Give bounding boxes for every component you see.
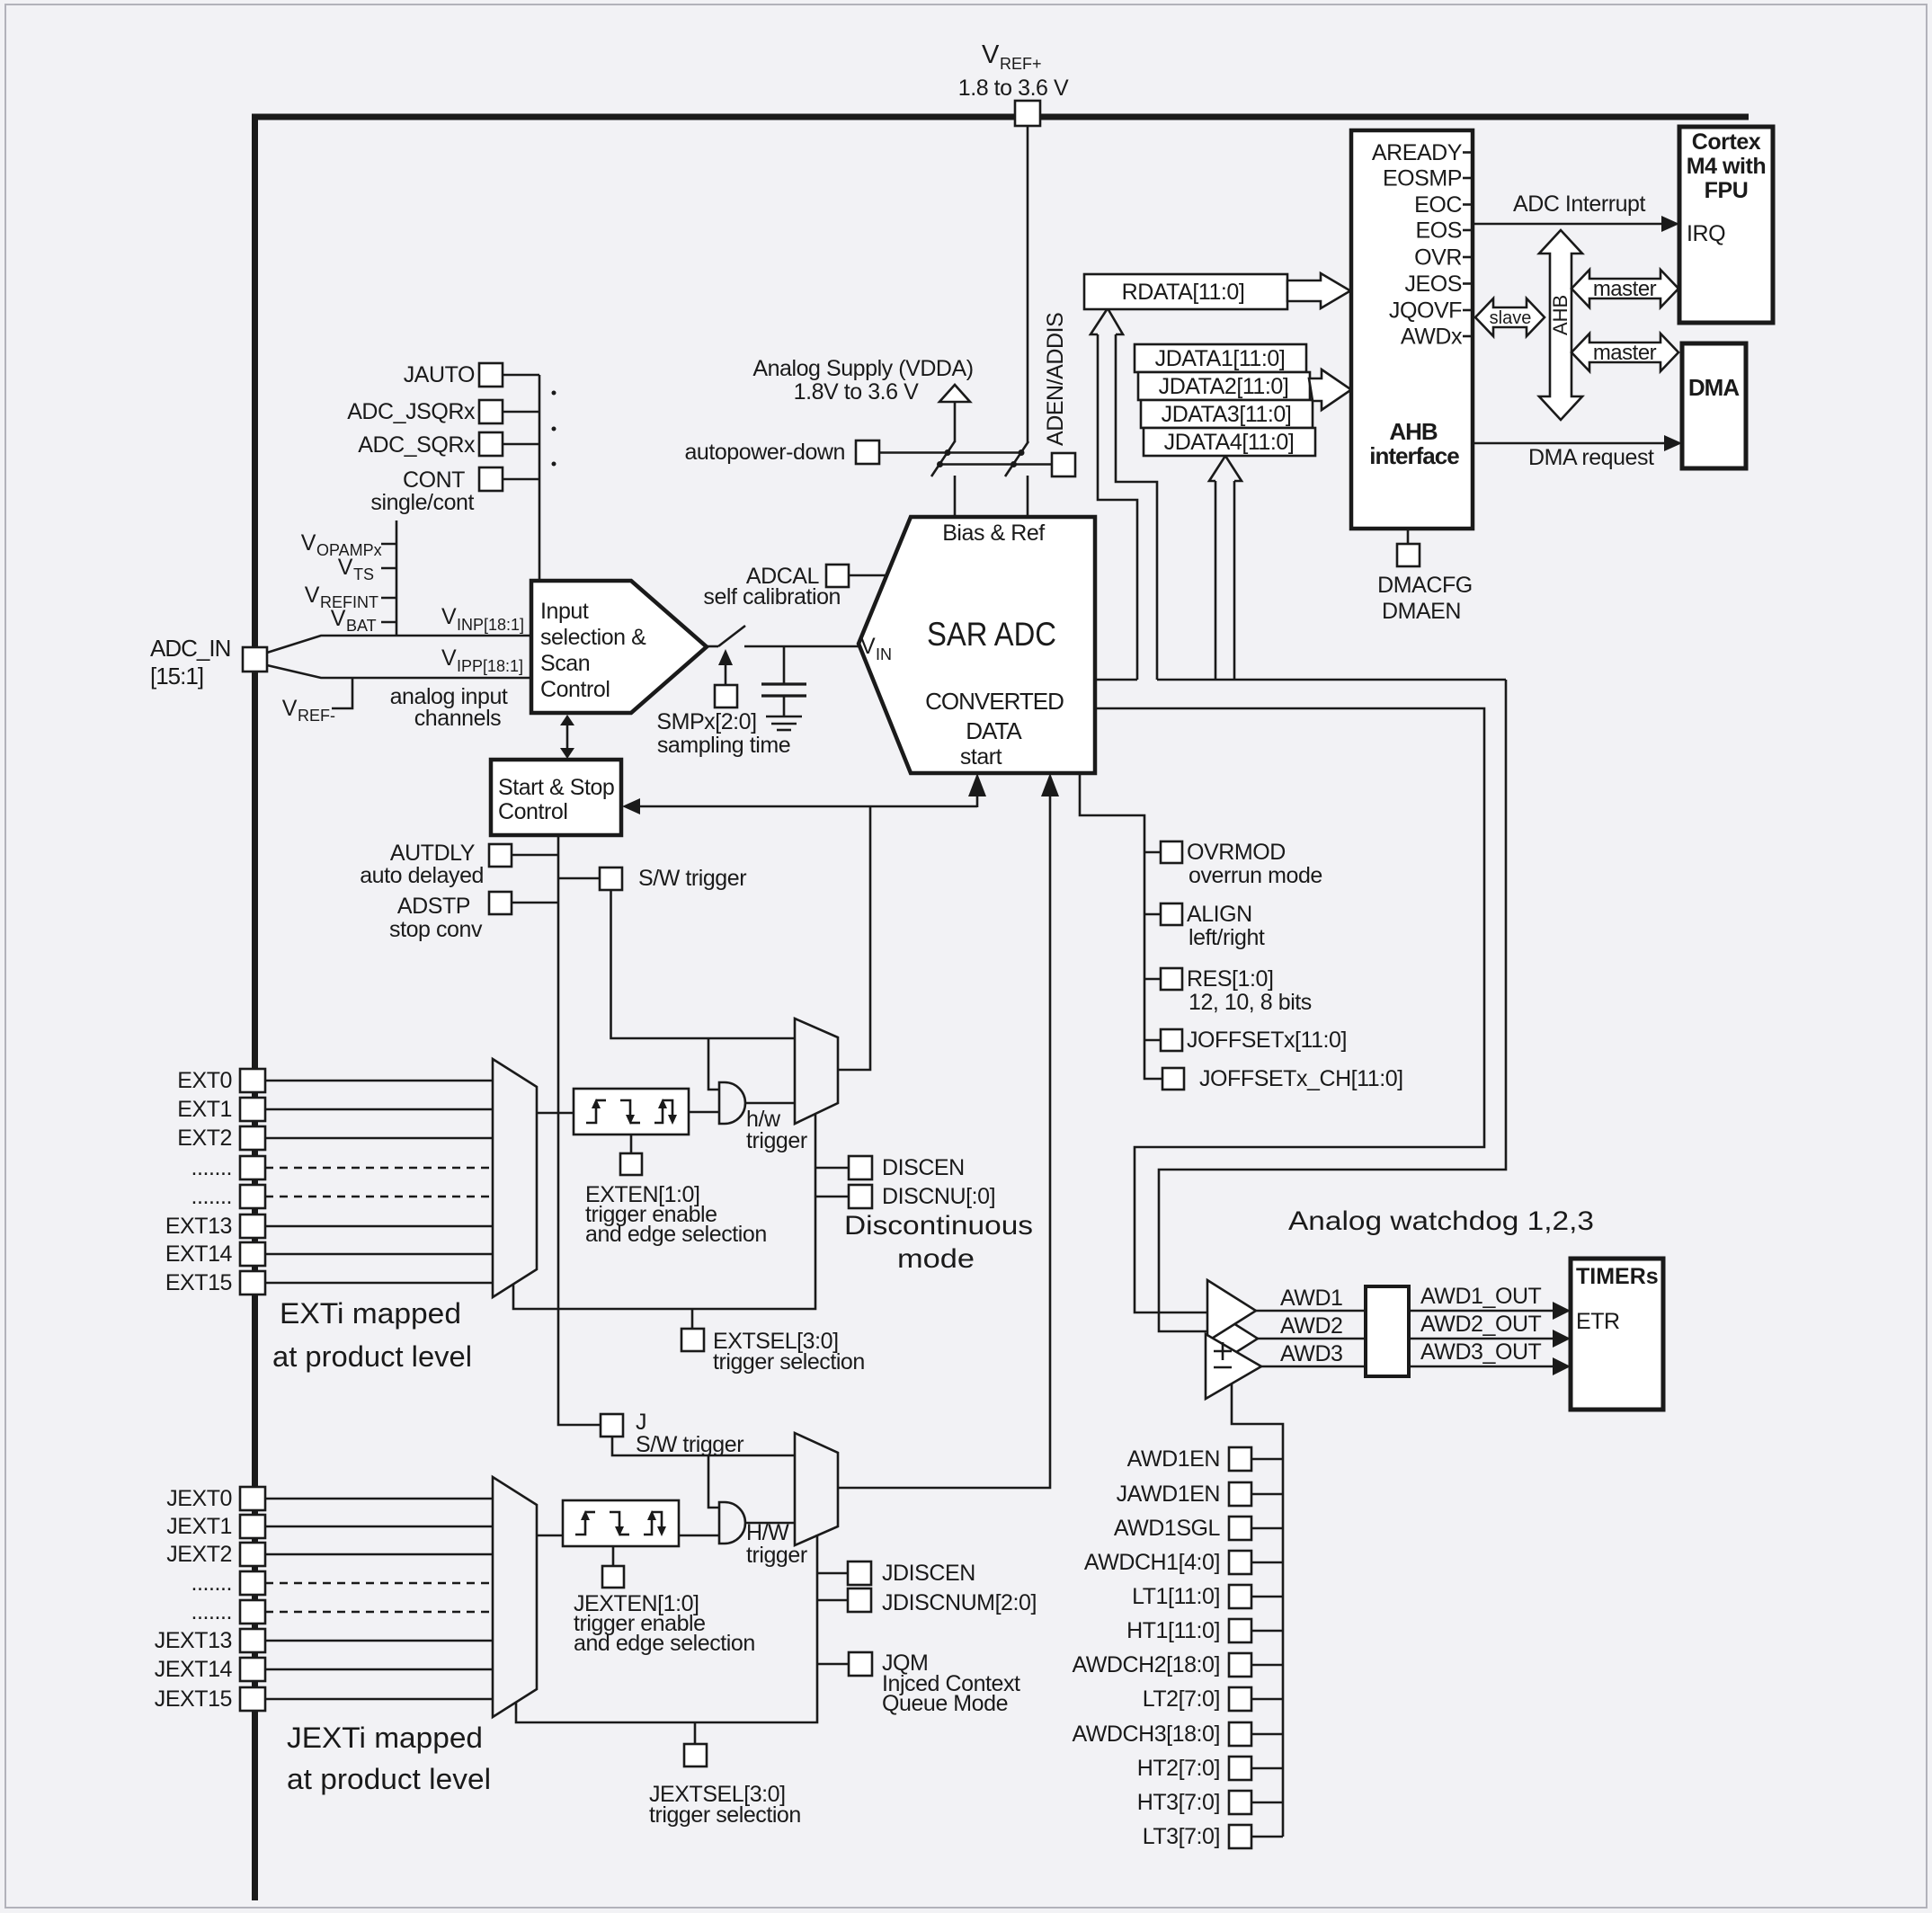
pin JEOS — [1405, 271, 1474, 297]
RDATA to AHB block arrow — [1287, 273, 1350, 308]
node VREFINT label — [305, 583, 396, 611]
svg-text:JEXT1: JEXT1 — [166, 1514, 232, 1539]
wire: branch to EXT hw gate — [708, 1038, 719, 1090]
node ADC_IN connector — [243, 647, 267, 672]
node VREF+ label — [958, 40, 1069, 101]
op block Start and Stop Control — [491, 760, 621, 835]
wire DMACFG stub — [1407, 529, 1410, 544]
wire JEXTSEL stub — [694, 1722, 697, 1744]
node JEXT13 square — [240, 1629, 265, 1652]
wire EXTdots2 to mux — [265, 1196, 493, 1198]
Start and Stop labels — [498, 775, 614, 824]
svg-text:and edge selection: and edge selection — [574, 1631, 755, 1656]
wire JEXT1 to mux — [265, 1526, 493, 1528]
svg-text:DISCNU[:0]: DISCNU[:0] — [882, 1184, 995, 1209]
svg-text:EOSMP: EOSMP — [1383, 166, 1462, 191]
wire JAUTO to register line — [503, 374, 539, 377]
node RES[1:0] square — [1161, 968, 1182, 990]
bus arrow slave — [1475, 298, 1545, 336]
node Analog Supply (VDDA) label — [752, 356, 973, 405]
svg-text:LT2[7:0]: LT2[7:0] — [1143, 1686, 1220, 1712]
node JEXTdots2 square — [240, 1600, 265, 1624]
node VTS label — [338, 555, 396, 583]
wire EXT15 to mux — [265, 1282, 493, 1285]
svg-text:AREADY: AREADY — [1372, 140, 1463, 165]
svg-text:HT1[11:0]: HT1[11:0] — [1126, 1618, 1220, 1643]
svg-text:V: V — [860, 634, 876, 659]
svg-text:Control: Control — [498, 799, 567, 824]
node JDISCEN square — [848, 1562, 871, 1585]
wire LT2[7:0] stub — [1251, 1698, 1283, 1701]
svg-text:DMACFG: DMACFG — [1377, 573, 1473, 598]
bidirectional arrow input selection to start stop — [560, 715, 574, 759]
wire ADC_SQRx to register line — [503, 443, 539, 446]
svg-text:LT1[11:0]: LT1[11:0] — [1132, 1584, 1220, 1609]
svg-text:stop conv: stop conv — [389, 917, 483, 942]
node JOFFSETx[11:0] square — [1161, 1029, 1182, 1051]
svg-text:DATA: DATA — [966, 717, 1022, 744]
svg-text:master: master — [1593, 277, 1657, 301]
AWD labels — [1280, 1286, 1343, 1366]
svg-text:EXT13: EXT13 — [165, 1214, 232, 1239]
node AWDCH3[18:0] square — [1229, 1722, 1251, 1746]
op JEXTEN trigger edge box — [563, 1500, 679, 1546]
svg-text:AWD3_OUT: AWD3_OUT — [1420, 1339, 1542, 1365]
sampling switch arm — [718, 626, 745, 646]
svg-text:AWDx: AWDx — [1401, 325, 1463, 350]
svg-text:IRQ: IRQ — [1687, 221, 1725, 246]
node EXT0 square — [240, 1069, 265, 1092]
svg-text:ADC_SQRx: ADC_SQRx — [358, 432, 476, 458]
node AWD1SGL square — [1229, 1517, 1251, 1540]
wire SAR converted data to AWD comparator 2 — [1159, 680, 1506, 1331]
node JEXTEN[1:0] square — [602, 1566, 624, 1588]
node JAWD1EN square — [1229, 1482, 1251, 1506]
wire AWD1SGL stub — [1251, 1527, 1283, 1530]
node EXT15 square — [240, 1271, 265, 1295]
svg-text:DMAEN: DMAEN — [1382, 599, 1461, 624]
node VREF+ connector — [1015, 101, 1040, 126]
svg-text:trigger selection: trigger selection — [713, 1349, 865, 1375]
svg-text:JDATA1[11:0]: JDATA1[11:0] — [1155, 346, 1286, 371]
node JEXT15 square — [240, 1687, 265, 1711]
svg-text:J: J — [636, 1410, 646, 1435]
svg-text:EXTi mapped: EXTi mapped — [280, 1297, 461, 1330]
wire: start stop control down to J S/W trigger — [558, 835, 601, 1425]
svg-text:self calibration: self calibration — [703, 584, 841, 609]
svg-text:JDATA4[11:0]: JDATA4[11:0] — [1164, 430, 1295, 455]
node DISCEN square — [849, 1156, 872, 1179]
svg-text:interface: interface — [1369, 442, 1459, 469]
svg-text:AUTDLY: AUTDLY — [390, 841, 476, 866]
Cortex labels — [1687, 129, 1767, 246]
analog input channels label — [390, 684, 508, 731]
svg-text:V: V — [338, 555, 353, 580]
svg-text:JAWD1EN: JAWD1EN — [1117, 1481, 1220, 1507]
op block Cortex M4 — [1679, 127, 1773, 323]
node SMPx square — [715, 685, 737, 707]
svg-text:AHB: AHB — [1389, 418, 1438, 445]
node EXT14 square — [240, 1242, 265, 1266]
svg-text:DMA: DMA — [1688, 374, 1740, 401]
wire SAR data bus to AWD — [1157, 679, 1506, 681]
bus arrow AHB vertical — [1539, 230, 1582, 420]
comparator AWD3 — [1206, 1334, 1261, 1399]
svg-text:TIMERs: TIMERs — [1576, 1264, 1659, 1289]
svg-text:at product level: at product level — [287, 1763, 491, 1795]
node OVRMOD square — [1161, 841, 1182, 863]
node EXT1 square — [240, 1098, 265, 1121]
node ADEN/ADDIS square — [1052, 453, 1075, 476]
svg-text:Bias & Ref: Bias & Ref — [942, 521, 1045, 546]
wire internal channels line — [396, 521, 398, 636]
node HT3[7:0] square — [1229, 1791, 1251, 1814]
svg-text:EXT2: EXT2 — [177, 1126, 232, 1151]
svg-text:[15:1]: [15:1] — [150, 663, 203, 690]
svg-text:AWD2: AWD2 — [1280, 1313, 1343, 1339]
node JDATA1 register box — [1135, 344, 1306, 372]
svg-text:CONVERTED: CONVERTED — [925, 688, 1064, 715]
wire AWD1_OUT — [1409, 1302, 1571, 1320]
bus arrow master (DMA) — [1571, 334, 1678, 371]
svg-text:sampling time: sampling time — [657, 733, 790, 758]
svg-text:LT3[7:0]: LT3[7:0] — [1143, 1824, 1220, 1849]
node VBAT label — [331, 606, 396, 635]
op AWD output register box — [1366, 1286, 1409, 1376]
wire HT1[11:0] stub — [1251, 1630, 1283, 1633]
node ADCAL square — [826, 565, 849, 587]
wire EXT2 to mux — [265, 1137, 493, 1140]
node ADC_JSQRx square — [479, 400, 503, 423]
svg-text:V: V — [301, 530, 316, 556]
svg-text:Analog watchdog 1,2,3: Analog watchdog 1,2,3 — [1288, 1206, 1594, 1236]
svg-text:EOS: EOS — [1416, 218, 1462, 244]
wire: autopower-down upper rail — [879, 451, 1023, 454]
wire J trigger mux output up to SAR start — [838, 796, 1050, 1488]
svg-text:.......: ....... — [191, 1184, 232, 1209]
op block TIMERs — [1571, 1259, 1663, 1410]
svg-text:master: master — [1593, 341, 1657, 365]
SAR start arrow 1 — [968, 773, 986, 807]
node J S/W trigger square — [601, 1414, 623, 1437]
svg-text:V: V — [441, 645, 457, 671]
node ADSTP square — [489, 892, 512, 914]
wire VIPP channel — [267, 665, 531, 678]
mux EXT trigger select — [795, 1019, 838, 1124]
wire VINP channel — [267, 636, 531, 653]
svg-text:12, 10, 8 bits: 12, 10, 8 bits — [1189, 990, 1312, 1015]
wire HT2[7:0] stub — [1251, 1767, 1283, 1770]
node EXT13 square — [240, 1215, 265, 1238]
wire: VREF+ down to SAR ADC — [1027, 126, 1029, 442]
svg-text:JEXT14: JEXT14 — [155, 1657, 233, 1682]
svg-text:AWDCH2[18:0]: AWDCH2[18:0] — [1072, 1652, 1220, 1677]
pin AREADY — [1372, 140, 1473, 165]
wire LT1[11:0] stub — [1251, 1596, 1283, 1598]
svg-text:EXT14: EXT14 — [165, 1241, 233, 1267]
wire EXTdots1 to mux — [265, 1167, 493, 1170]
wire JEXTdots2 to mux — [265, 1611, 493, 1614]
EXTi mapped label — [272, 1297, 472, 1373]
wire EXT selection enclosure — [513, 1115, 815, 1309]
svg-text:JDATA3[11:0]: JDATA3[11:0] — [1162, 402, 1292, 427]
svg-text:.......: ....... — [191, 1570, 232, 1596]
node JEXT1 square — [240, 1515, 265, 1538]
node JDATA2 register box — [1138, 372, 1310, 400]
svg-text:AWD1: AWD1 — [1280, 1286, 1343, 1311]
pin JQOVF — [1389, 298, 1473, 324]
svg-text:1.8 to 3.6 V: 1.8 to 3.6 V — [958, 76, 1069, 101]
svg-text:Start & Stop: Start & Stop — [498, 775, 614, 800]
svg-text:M4 with: M4 with — [1687, 154, 1767, 179]
node JEXT0 square — [240, 1487, 265, 1510]
svg-text:TS: TS — [353, 565, 374, 583]
wire AWD2_OUT — [1409, 1330, 1571, 1348]
svg-text:DISCEN: DISCEN — [882, 1155, 965, 1180]
svg-text:CONT: CONT — [403, 467, 465, 493]
wire SAR converted data to AWD comparator 1 — [1095, 708, 1484, 1312]
svg-text:JEOS: JEOS — [1405, 271, 1463, 297]
wire: switch to SAR VIN — [744, 645, 859, 648]
node JEXTSEL square — [684, 1744, 707, 1766]
svg-text:Control: Control — [540, 677, 610, 702]
Discontinuous mode label — [844, 1211, 1033, 1274]
node SMPx labels — [656, 709, 790, 758]
register continuation dots — [552, 391, 556, 467]
node EXTdots2 square — [240, 1185, 265, 1208]
node CONT label — [370, 467, 474, 515]
gate EXT h/w trigger — [719, 1082, 745, 1124]
node JDISCNUM square — [848, 1588, 871, 1612]
node LT3[7:0] square — [1229, 1825, 1251, 1848]
wire AUTDLY — [512, 854, 558, 857]
node EXTEN[1:0] labels — [585, 1182, 767, 1247]
node ALIGN square — [1161, 903, 1182, 925]
svg-text:ADC_IN: ADC_IN — [150, 635, 230, 662]
wire RES[1:0] stub — [1144, 978, 1161, 981]
wire JEXT mux to JEXTEN box — [537, 1535, 563, 1537]
node JEXTdots1 square — [240, 1571, 265, 1595]
svg-text:JEXT2: JEXT2 — [166, 1542, 232, 1567]
node RDATA[11:0] register box — [1084, 274, 1287, 309]
gate JEXT H/W trigger — [719, 1502, 745, 1544]
wire JDISCEN stub — [817, 1572, 848, 1575]
op EXTEN trigger edge box — [574, 1089, 689, 1134]
trigger edge glyphs J — [575, 1510, 666, 1536]
pin EOC — [1414, 192, 1473, 218]
svg-text:S/W trigger: S/W trigger — [638, 866, 746, 891]
JDATA to AHB block arrow — [1309, 369, 1351, 410]
svg-text:JEXT13: JEXT13 — [155, 1628, 232, 1653]
node EXTSEL square — [681, 1329, 704, 1351]
node J S/W trigger label — [636, 1410, 743, 1457]
svg-text:HT2[7:0]: HT2[7:0] — [1137, 1756, 1220, 1781]
wire: input hexagon to switch — [707, 645, 718, 648]
svg-text:JOFFSETx_CH[11:0]: JOFFSETx_CH[11:0] — [1199, 1066, 1403, 1091]
svg-text:Input: Input — [540, 599, 589, 624]
analog slash mark on VREF line — [1005, 441, 1028, 476]
svg-text:V: V — [282, 696, 298, 721]
wire JEXT14 to mux — [265, 1668, 493, 1671]
wire OVRMOD stub — [1144, 851, 1161, 854]
svg-text:start: start — [960, 744, 1002, 770]
wire DMA request arrow — [1473, 435, 1682, 470]
wire: trigger into Start Stop Control (arrowed) — [622, 798, 977, 814]
svg-text:.......: ....... — [191, 1599, 232, 1624]
analog slash mark on VDDA line — [931, 441, 955, 476]
svg-text:SAR ADC: SAR ADC — [927, 616, 1056, 653]
node VOPAMPx label — [301, 530, 396, 559]
svg-text:.......: ....... — [191, 1155, 232, 1180]
svg-text:RES[1:0]: RES[1:0] — [1187, 966, 1273, 992]
svg-text:JDISCNUM[2:0]: JDISCNUM[2:0] — [882, 1590, 1037, 1615]
wire J S/W trigger to J mux — [612, 1437, 795, 1455]
wire LT3[7:0] stub — [1251, 1836, 1283, 1838]
node VREF- label — [282, 696, 335, 725]
node HT2[7:0] square — [1229, 1757, 1251, 1780]
wire JEXT15 to mux — [265, 1698, 493, 1701]
svg-text:EXT15: EXT15 — [165, 1270, 232, 1295]
wire ADSTP — [512, 902, 558, 904]
svg-text:JDISCEN: JDISCEN — [882, 1561, 975, 1586]
svg-text:IN: IN — [876, 645, 892, 663]
svg-text:mode: mode — [897, 1244, 975, 1274]
svg-text:JEXTi mapped: JEXTi mapped — [287, 1722, 483, 1754]
wire CONT to register line — [503, 478, 539, 481]
svg-text:Cortex: Cortex — [1692, 129, 1761, 155]
node DMACFG square — [1397, 544, 1420, 566]
node AWDCH1[4:0] square — [1229, 1551, 1251, 1574]
wire: top VREF+ bus — [252, 114, 1749, 120]
svg-text:trigger selection: trigger selection — [649, 1802, 801, 1828]
svg-text:EOC: EOC — [1414, 192, 1462, 218]
node SMPx arrow — [718, 649, 733, 685]
svg-text:V: V — [331, 606, 346, 631]
wire EXT trigger mux output to start control — [838, 806, 870, 1070]
node AWDCH2[18:0] square — [1229, 1653, 1251, 1677]
comparator plus minus symbol — [1214, 1342, 1232, 1367]
node AWD1EN square — [1229, 1447, 1251, 1471]
JEXTi mapped label — [287, 1722, 491, 1795]
svg-text:ALIGN: ALIGN — [1187, 902, 1252, 927]
svg-text:INP[18:1]: INP[18:1] — [457, 616, 524, 634]
node VIPP[18:1] label — [441, 645, 523, 675]
comparator AWD1 — [1207, 1280, 1256, 1341]
node ADCAL label — [703, 564, 841, 609]
wire JOFFSETx[11:0] stub — [1144, 1039, 1161, 1042]
node JOFFSETx_CH[11:0] square — [1162, 1068, 1184, 1090]
node ADSTP label — [389, 894, 483, 942]
node VINP[18:1] label — [441, 604, 524, 634]
svg-text:left/right: left/right — [1189, 925, 1265, 950]
wire AWD2 — [1258, 1338, 1366, 1340]
SAR start arrow 2 (injected) — [1041, 773, 1059, 796]
wire RDATA bus arrow shaft — [1091, 308, 1157, 680]
wire EXT mux to EXTEN box — [537, 1112, 574, 1115]
bus arrow master (Cortex) — [1571, 270, 1678, 307]
wire EXT14 to mux — [265, 1253, 493, 1256]
wire AWD3 comparator to config line — [1232, 1384, 1283, 1837]
svg-text:BAT: BAT — [346, 617, 377, 635]
wire JEXT0 to mux — [265, 1498, 493, 1500]
wire JEXT13 to mux — [265, 1640, 493, 1642]
wire SAR to config register list — [1080, 773, 1162, 1079]
Input selection labels — [540, 599, 646, 702]
svg-text:ADC_JSQRx: ADC_JSQRx — [347, 399, 476, 424]
node EXT2 square — [240, 1126, 265, 1150]
wire branch to JEXT gate — [708, 1455, 719, 1508]
svg-text:AWD1SGL: AWD1SGL — [1114, 1516, 1221, 1541]
svg-text:Analog Supply (VDDA): Analog Supply (VDDA) — [752, 356, 973, 381]
svg-text:slave: slave — [1490, 308, 1532, 328]
op block Input selection and Scan Control hexagon — [531, 581, 707, 713]
wire EXT0 to mux — [265, 1080, 493, 1082]
svg-text:at product level: at product level — [272, 1340, 472, 1373]
node JEXTSEL labels — [649, 1782, 801, 1828]
wire EXTEN box to EXTEN square — [630, 1134, 633, 1153]
svg-text:AWD3: AWD3 — [1280, 1341, 1343, 1366]
node EXTdots1 square — [240, 1156, 265, 1179]
svg-text:Scan: Scan — [540, 651, 590, 676]
node JDATA3 register box — [1141, 400, 1313, 428]
svg-text:JEXT15: JEXT15 — [155, 1686, 232, 1712]
node ADC_IN label — [150, 635, 230, 690]
svg-text:single/cont: single/cont — [370, 490, 474, 515]
wire AWD1 — [1256, 1310, 1366, 1312]
svg-text:REF+: REF+ — [1000, 55, 1042, 73]
svg-text:selection &: selection & — [540, 625, 646, 650]
node EXTEN[1:0] square — [620, 1153, 642, 1175]
wire EXT1 to mux — [265, 1108, 493, 1111]
wire SAR data stub to RDATA shaft — [1095, 679, 1137, 681]
wire ADC Interrupt arrow — [1473, 191, 1679, 232]
wire gate output to trigger mux — [745, 1102, 795, 1105]
svg-text:V: V — [305, 583, 320, 608]
svg-text:OVRMOD: OVRMOD — [1187, 840, 1286, 865]
wire EXT13 to mux — [265, 1225, 493, 1228]
svg-text:REF-: REF- — [298, 707, 335, 725]
svg-text:DMA request: DMA request — [1528, 445, 1654, 470]
node JEXT14 square — [240, 1658, 265, 1681]
svg-text:EXT0: EXT0 — [177, 1068, 232, 1093]
wire: ADCAL to SAR ADC — [849, 574, 888, 577]
capacitor sampling cap — [761, 646, 806, 716]
node DISCNU square — [849, 1185, 872, 1208]
svg-text:JOFFSETx[11:0]: JOFFSETx[11:0] — [1187, 1028, 1347, 1053]
wire: left vertical bus — [252, 114, 258, 1901]
node JQM labels — [882, 1651, 1020, 1716]
node DMACFG DMAEN labels — [1377, 573, 1473, 624]
node AUTDLY square — [489, 844, 512, 867]
svg-text:AHB: AHB — [1549, 295, 1571, 335]
SAR ADC labels — [860, 521, 1064, 770]
ground symbol — [766, 716, 802, 730]
node JEXT2 square — [240, 1543, 265, 1566]
wire AWD1EN stub — [1251, 1458, 1283, 1461]
svg-text:JEXT0: JEXT0 — [166, 1486, 232, 1511]
svg-text:EXT1: EXT1 — [177, 1097, 232, 1122]
svg-text:V: V — [441, 604, 457, 629]
svg-text:channels: channels — [414, 706, 501, 731]
wire AWD3_OUT — [1409, 1357, 1571, 1375]
node CONT square — [479, 467, 503, 491]
node S/W trigger square — [600, 868, 622, 890]
wire ALIGN stub — [1144, 913, 1161, 916]
svg-text:JDATA2[11:0]: JDATA2[11:0] — [1159, 374, 1289, 399]
op block DMA — [1682, 343, 1746, 468]
svg-text:REFINT: REFINT — [320, 593, 378, 611]
wire JDISCNUM stub — [817, 1599, 848, 1602]
